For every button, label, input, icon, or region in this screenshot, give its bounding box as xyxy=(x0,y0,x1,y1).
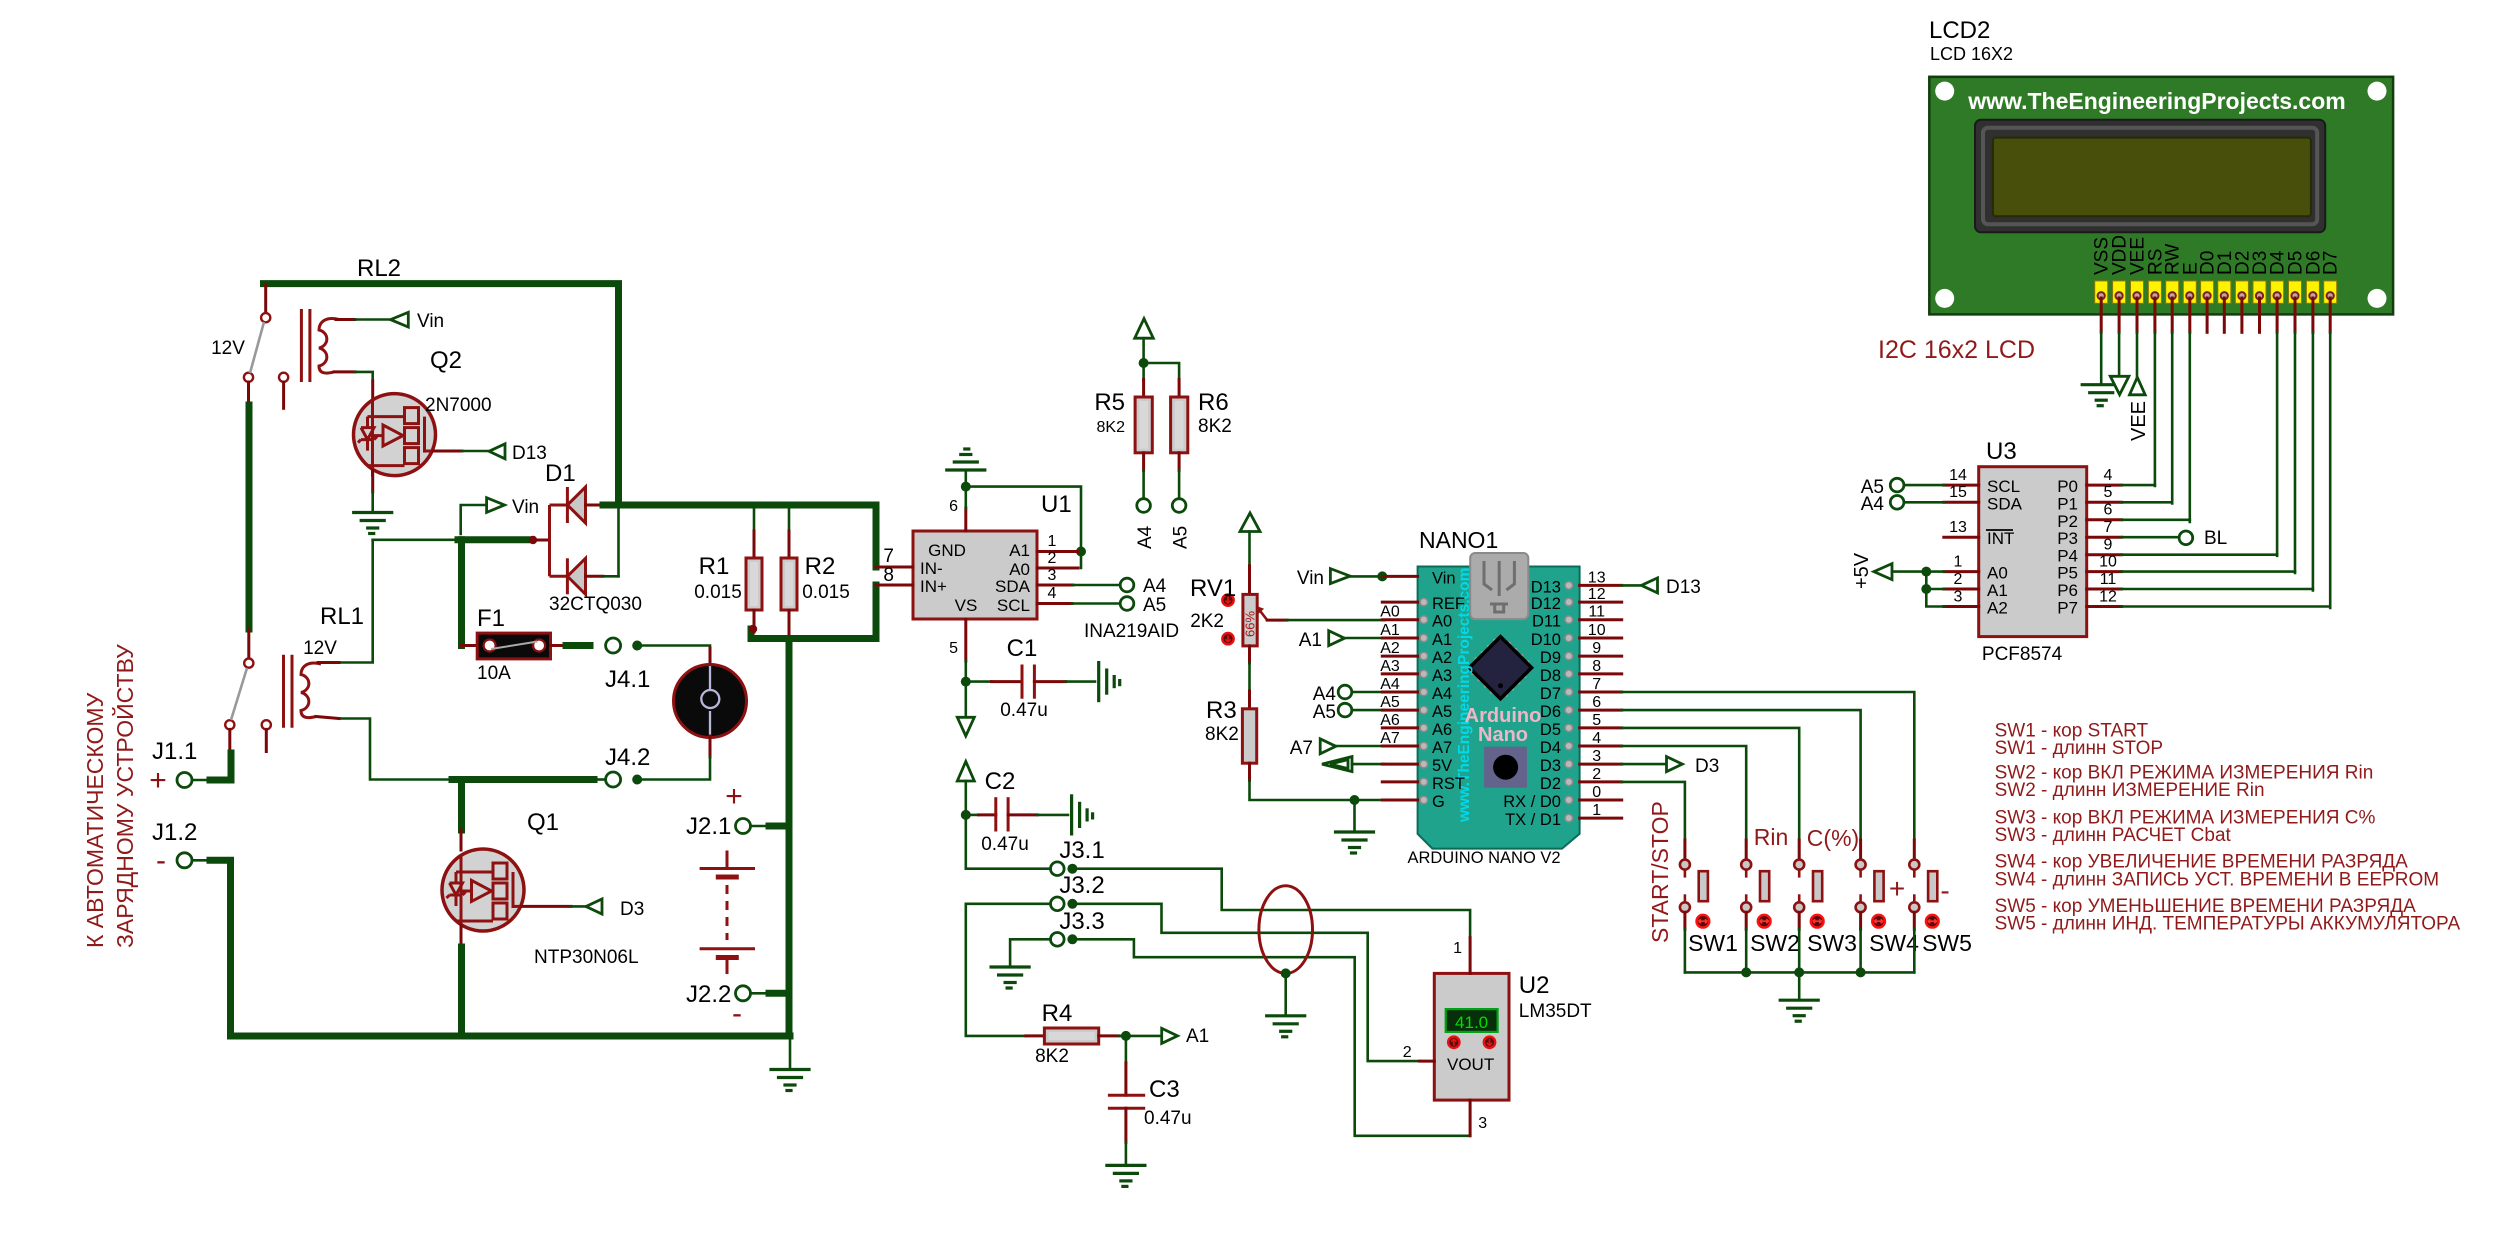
terminal arrow up (C2 net) xyxy=(957,762,974,820)
svg-text:5: 5 xyxy=(1592,712,1601,729)
relay RL2 switch contact circles xyxy=(244,313,288,382)
wire: U3 P0 to LCD RS xyxy=(2122,484,2155,487)
svg-text:A4: A4 xyxy=(1432,685,1452,703)
svg-text:A1: A1 xyxy=(1299,630,1322,651)
svg-text:4: 4 xyxy=(2104,467,2113,484)
svg-text:A1: A1 xyxy=(1380,622,1400,639)
svg-text:RST: RST xyxy=(1432,775,1465,793)
svg-text:0.47u: 0.47u xyxy=(981,834,1029,855)
svg-text:P6: P6 xyxy=(2057,581,2078,600)
svg-text:J3.1: J3.1 xyxy=(1059,837,1104,864)
transistor Q2 gate wire to D13 xyxy=(433,450,489,453)
wire: J3.3 left to ground xyxy=(1010,939,1050,967)
svg-text:+5V: +5V xyxy=(1851,552,1873,589)
svg-text:START/STOP: START/STOP xyxy=(1647,801,1673,943)
resistor R1 xyxy=(746,508,762,633)
lamp xyxy=(674,648,747,757)
wire: U3 P4 to LCD D4 xyxy=(2122,553,2278,556)
wire: U3 P2 to LCD E xyxy=(2122,518,2190,521)
relay RL2 contact rail (thick wire) xyxy=(264,284,619,505)
terminal power arrow up (R5 R6) xyxy=(1135,319,1154,368)
svg-text:D13: D13 xyxy=(512,443,547,464)
svg-text:VS: VS xyxy=(955,596,978,615)
wire: RV1 wiper to Arduino A0 xyxy=(1267,619,1384,622)
svg-text:P0: P0 xyxy=(2057,477,2078,496)
wire: Arduino to SW2 xyxy=(1622,746,1747,840)
svg-text:ARDUINO NANO V2: ARDUINO NANO V2 xyxy=(1407,849,1560,867)
relay RL2 coil bottom to Q2 drain xyxy=(334,372,373,400)
terminal VDD power down-arrow xyxy=(2110,332,2129,394)
relay RL2 NC stub xyxy=(282,382,285,408)
wire: thick drop to Q1 drain xyxy=(458,780,465,831)
ground below switches xyxy=(1780,1000,1818,1021)
svg-text:8K2: 8K2 xyxy=(1035,1046,1069,1067)
U1 pin5 VS xyxy=(949,619,971,687)
svg-text:D12: D12 xyxy=(1531,595,1561,613)
svg-text:A1: A1 xyxy=(1987,581,2008,600)
wire: U3 P6 to LCD D6 xyxy=(2122,588,2313,591)
svg-text:10A: 10A xyxy=(477,663,511,684)
svg-text:4: 4 xyxy=(1048,585,1057,602)
wire: U3 P7 to LCD D7 xyxy=(2122,605,2331,608)
transistor Q2 source pin xyxy=(371,470,374,492)
relay RL2 switch bottom pin xyxy=(247,382,250,405)
ground right of C1 (rotated) xyxy=(1099,663,1120,701)
relay RL1 switch blade xyxy=(231,668,247,720)
svg-text:2: 2 xyxy=(1954,571,1963,588)
svg-text:Nano: Nano xyxy=(1478,724,1528,746)
connector J1.1 xyxy=(177,773,210,788)
svg-text:NTP30N06L: NTP30N06L xyxy=(534,947,639,968)
svg-text:66%: 66% xyxy=(1243,611,1258,637)
svg-text:1: 1 xyxy=(1592,802,1601,819)
ground below C3 xyxy=(1107,1165,1145,1186)
svg-text:A5: A5 xyxy=(1432,703,1452,721)
wire: U3 P3 to BL xyxy=(2122,531,2193,545)
svg-text:4: 4 xyxy=(1592,730,1601,747)
svg-text:SDA: SDA xyxy=(995,577,1031,596)
svg-text:Vin: Vin xyxy=(1432,569,1456,587)
svg-text:0.47u: 0.47u xyxy=(1144,1108,1192,1129)
svg-text:SCL: SCL xyxy=(1987,477,2020,496)
svg-text:12V: 12V xyxy=(303,638,337,659)
fuse F1 xyxy=(462,633,591,659)
connector J4.1 xyxy=(606,638,643,653)
svg-text:P3: P3 xyxy=(2057,529,2078,548)
svg-text:RL2: RL2 xyxy=(357,255,401,282)
svg-text:9: 9 xyxy=(1592,640,1601,657)
wire: J1.2 to ground rail (thick) xyxy=(210,860,790,1036)
relay RL2 coil top pin to Vin tag xyxy=(336,318,391,321)
svg-text:8K2: 8K2 xyxy=(1205,724,1239,745)
svg-text:J2.1: J2.1 xyxy=(686,813,731,840)
svg-text:+: + xyxy=(1889,873,1905,904)
potentiometer RV1 up button xyxy=(1222,594,1233,605)
ground below Q2 xyxy=(354,492,392,534)
svg-text:41.0: 41.0 xyxy=(1455,1013,1488,1032)
terminal Vin (RL2 coil) xyxy=(391,312,409,327)
resistor R3 xyxy=(1242,663,1256,780)
resistor R6 xyxy=(1144,363,1188,499)
svg-text:SW1: SW1 xyxy=(1688,930,1738,956)
wire: thick vertical x789 (shunt bottom to gnd rail) xyxy=(786,639,793,1037)
svg-text:7: 7 xyxy=(1592,676,1601,693)
U1 inside pin names xyxy=(920,541,1031,615)
svg-text:A2: A2 xyxy=(1432,649,1452,667)
wire: J3.2 left to R4 xyxy=(966,904,1051,1036)
svg-text:D8: D8 xyxy=(1540,667,1561,685)
U1 pin3 SDA to A4 xyxy=(1037,567,1167,597)
terminal 5V (Arduino) xyxy=(1322,757,1385,772)
switch SW1 xyxy=(1680,840,1709,972)
svg-text:A2: A2 xyxy=(1987,599,2008,618)
svg-text:0.015: 0.015 xyxy=(694,582,742,603)
svg-text:Vin: Vin xyxy=(417,311,444,332)
svg-text:SW4 - длинн ЗАПИСЬ УСТ. ВРЕМЕН: SW4 - длинн ЗАПИСЬ УСТ. ВРЕМЕНИ В EEPROM xyxy=(1995,870,2440,891)
svg-text:SCL: SCL xyxy=(997,596,1030,615)
svg-text:R6: R6 xyxy=(1198,389,1229,416)
potentiometer RV1 xyxy=(1243,566,1268,663)
svg-text:6: 6 xyxy=(2104,502,2113,519)
svg-text:Q1: Q1 xyxy=(527,809,559,836)
connector J1.2 xyxy=(177,853,210,868)
svg-text:J2.2: J2.2 xyxy=(686,981,731,1008)
U1 pin2 A0 xyxy=(1037,550,1078,568)
wire: Arduino to SW3 xyxy=(1622,728,1800,840)
svg-text:3: 3 xyxy=(1048,567,1057,584)
svg-text:SW3: SW3 xyxy=(1807,930,1857,956)
LCD2 board xyxy=(1929,77,2393,315)
svg-text:J3.3: J3.3 xyxy=(1059,908,1104,935)
svg-text:SDA: SDA xyxy=(1987,494,2023,513)
wire: RL1 coil bottom feed xyxy=(339,719,452,780)
Arduino left pin stubs and circles xyxy=(1382,576,1427,803)
U2 pin3 stub xyxy=(1470,1100,1487,1136)
relay RL1 switch top pin xyxy=(247,629,250,658)
transistor Q1 source to ground rail (thick) xyxy=(460,925,464,1036)
svg-text:REF: REF xyxy=(1432,595,1465,613)
svg-text:5V: 5V xyxy=(1432,757,1452,775)
wire: J3.1 to U2 pin1 xyxy=(1077,869,1470,938)
wire: J1.1 to switch (thick elbow) xyxy=(210,753,231,780)
U3 inside pin names xyxy=(1987,477,2078,617)
Arduino MCU chip (diamond) xyxy=(1469,637,1531,699)
svg-text:A5: A5 xyxy=(1380,694,1400,711)
svg-text:A1: A1 xyxy=(1432,631,1452,649)
svg-text:J4.1: J4.1 xyxy=(605,666,650,693)
svg-text:D7: D7 xyxy=(2321,251,2342,275)
Arduino USB connector xyxy=(1470,553,1528,619)
relay RL2 switch blade xyxy=(250,322,264,373)
svg-text:D13: D13 xyxy=(1531,578,1561,596)
svg-text:0.47u: 0.47u xyxy=(1000,700,1048,721)
svg-text:8: 8 xyxy=(883,565,894,586)
svg-text:SW5: SW5 xyxy=(1922,930,1972,956)
wire: thick stub U1 IN+ to bottom rail xyxy=(873,585,880,639)
LCD2 pin names (rotated) xyxy=(2092,235,2342,275)
U3 left pin numbers xyxy=(1949,467,1967,606)
U3 right pin stubs xyxy=(2087,485,2122,606)
IC U3 PCF8574 body xyxy=(1979,467,2087,637)
svg-text:12V: 12V xyxy=(211,338,245,359)
svg-text:3: 3 xyxy=(1954,589,1963,606)
wire: LCD D4 vertical xyxy=(2276,332,2279,556)
svg-text:LM35DT: LM35DT xyxy=(1519,1001,1592,1022)
svg-text:15: 15 xyxy=(1949,484,1967,501)
svg-text:RX / D0: RX / D0 xyxy=(1503,793,1561,811)
U2 pin2 stub xyxy=(1403,1044,1435,1061)
terminal VEE up-arrow xyxy=(2130,332,2146,395)
svg-text:A1: A1 xyxy=(1009,541,1030,560)
svg-text:D9: D9 xyxy=(1540,649,1561,667)
svg-text:INA219AID: INA219AID xyxy=(1084,621,1179,642)
wire: thick stub rail to U1 IN- xyxy=(873,505,880,567)
Arduino reset button square xyxy=(1484,747,1527,788)
Arduino left pin names xyxy=(1432,569,1465,811)
transistor Q1 drain pin xyxy=(460,830,463,850)
svg-text:8K2: 8K2 xyxy=(1097,419,1126,436)
terminal A1 (R4) xyxy=(1162,1028,1178,1043)
terminal D13 (Q2 gate) xyxy=(489,444,505,459)
terminal A5 circle (U3) xyxy=(1890,478,1944,492)
svg-text:0: 0 xyxy=(1592,784,1601,801)
relay RL2 coil xyxy=(301,309,339,382)
svg-text:TX / D1: TX / D1 xyxy=(1505,811,1561,829)
svg-text:-: - xyxy=(1940,875,1949,906)
svg-text:5: 5 xyxy=(2104,484,2113,501)
ground below shield xyxy=(1267,1016,1305,1037)
svg-text:10: 10 xyxy=(1588,622,1606,639)
svg-text:2: 2 xyxy=(1592,766,1601,783)
svg-text:PCF8574: PCF8574 xyxy=(1982,644,2063,665)
svg-text:P2: P2 xyxy=(2057,512,2078,531)
svg-text:8K2: 8K2 xyxy=(1198,416,1232,437)
relay RL1 NC stub xyxy=(265,729,268,751)
svg-text:R4: R4 xyxy=(1042,1000,1073,1027)
wire: R3 bottom to Arduino G and ground xyxy=(1250,780,1385,831)
svg-text:12: 12 xyxy=(1588,586,1606,603)
wire: thick battery-positive rail to J4.2 xyxy=(452,776,594,783)
transistor Q1 xyxy=(442,849,524,932)
wire: C2 net down to J3.1 xyxy=(966,815,1051,869)
terminal D13 tag wire xyxy=(1622,578,1658,593)
svg-text:A7: A7 xyxy=(1432,739,1452,757)
connector J2.1 xyxy=(736,819,790,834)
U1 pin6 GND stub xyxy=(949,487,966,531)
annotation text SW functions xyxy=(1995,721,2461,935)
svg-text:P5: P5 xyxy=(2057,564,2078,583)
svg-text:A5: A5 xyxy=(1143,595,1166,616)
terminal Vin (Arduino) xyxy=(1330,569,1387,584)
IC U1 INA219AID body xyxy=(913,531,1037,619)
svg-text:A5: A5 xyxy=(1313,702,1336,723)
svg-text:A4: A4 xyxy=(1135,525,1156,549)
svg-text:GND: GND xyxy=(928,541,966,560)
svg-text:SW2: SW2 xyxy=(1750,930,1800,956)
ground right of C2 (rotated) xyxy=(1072,796,1093,834)
svg-text:14: 14 xyxy=(1949,467,1967,484)
svg-text:C2: C2 xyxy=(985,768,1016,795)
svg-text:13: 13 xyxy=(1588,569,1606,586)
svg-text:U1: U1 xyxy=(1041,491,1072,518)
svg-text:VOUT: VOUT xyxy=(1447,1055,1494,1074)
battery symbol xyxy=(700,851,755,975)
terminal +5V arrow (U3) xyxy=(1874,564,1944,607)
svg-text:SW5 - длинн ИНД. ТЕМПЕРАТУРЫ А: SW5 - длинн ИНД. ТЕМПЕРАТУРЫ АККУМУЛЯТОР… xyxy=(1995,914,2461,935)
svg-text:P1: P1 xyxy=(2057,494,2078,513)
U2 pin1 stub xyxy=(1453,938,1470,974)
wire: thick drop to fuse F1 xyxy=(458,540,465,646)
svg-text:2: 2 xyxy=(1048,550,1057,567)
wire: LCD E vertical xyxy=(2189,332,2192,522)
svg-text:8: 8 xyxy=(1592,658,1601,675)
svg-text:R3: R3 xyxy=(1206,697,1237,724)
svg-text:R5: R5 xyxy=(1094,389,1125,416)
relay RL1 coil xyxy=(284,655,340,728)
svg-text:ЗАРЯДНОМУ УСТРОЙСТВУ: ЗАРЯДНОМУ УСТРОЙСТВУ xyxy=(111,644,138,948)
svg-text:D10: D10 xyxy=(1531,631,1561,649)
ground at bottom rail xyxy=(771,1036,809,1091)
switch SW2 xyxy=(1741,840,1770,972)
terminal D3 tag wire xyxy=(1622,757,1683,772)
switch SW3 xyxy=(1794,840,1823,972)
svg-text:C(%): C(%) xyxy=(1807,825,1859,851)
wire: U3 P1 to LCD RW xyxy=(2122,501,2173,504)
svg-text:www.TheEngineeringProjects.com: www.TheEngineeringProjects.com xyxy=(1967,88,2345,114)
svg-text:INT: INT xyxy=(1987,529,2014,548)
svg-text:A1: A1 xyxy=(1186,1026,1209,1047)
Arduino Nano pink label xyxy=(1465,705,1542,746)
svg-text:1: 1 xyxy=(1954,554,1963,571)
wire: Arduino to SW4 xyxy=(1622,710,1861,840)
svg-text:-: - xyxy=(732,997,742,1030)
svg-text:VEE: VEE xyxy=(2128,401,2150,441)
LCD2 display bezel xyxy=(1975,120,2325,233)
svg-text:+: + xyxy=(725,780,743,813)
svg-text:A7: A7 xyxy=(1380,730,1400,747)
Arduino outer A0-A7 labels xyxy=(1380,604,1400,747)
svg-text:A4: A4 xyxy=(1380,676,1400,693)
connector J3.3 xyxy=(1051,933,1078,947)
capacitor C2 xyxy=(966,797,1068,831)
wire: J3.3 to U2 pin3 xyxy=(1077,939,1470,1136)
svg-text:Vin: Vin xyxy=(512,497,539,518)
wire: Vin net to RL1 coil (thin) xyxy=(339,540,373,663)
switch SW5 xyxy=(1909,840,1938,972)
wire: Vin junction horizontal (thin then thick) xyxy=(373,538,531,541)
svg-text:A0: A0 xyxy=(1432,613,1452,631)
svg-text:Q2: Q2 xyxy=(430,347,462,374)
Arduino right pin numbers xyxy=(1588,569,1606,819)
svg-text:7: 7 xyxy=(883,546,894,567)
connector J4.2 xyxy=(594,772,642,787)
terminal D3 (Q1 gate) xyxy=(586,899,602,914)
svg-text:12: 12 xyxy=(2099,589,2117,606)
shielded cable symbol xyxy=(1259,886,1313,1016)
svg-text:RV1: RV1 xyxy=(1190,575,1236,602)
U1 pin8 IN+ xyxy=(876,584,913,587)
capacitor C3 xyxy=(1108,1036,1145,1165)
potentiometer RV1 down button xyxy=(1222,633,1233,644)
svg-text:A4: A4 xyxy=(1143,576,1167,597)
relay RL2 switch pole pin xyxy=(264,285,267,312)
svg-text:D5: D5 xyxy=(1540,721,1561,739)
svg-text:J1.1: J1.1 xyxy=(152,738,197,765)
svg-text:9: 9 xyxy=(2104,537,2113,554)
wire: Arduino to SW1 xyxy=(1622,782,1685,840)
terminal A4 circle (U3) xyxy=(1890,496,1944,510)
svg-text:32CTQ030: 32CTQ030 xyxy=(549,594,642,615)
U1 pin4 SCL to A5 xyxy=(1037,585,1166,616)
wire: main thick rail from D1 to shunts xyxy=(603,502,876,509)
svg-text:3: 3 xyxy=(1478,1115,1487,1132)
svg-text:SW1 - длинн STOP: SW1 - длинн STOP xyxy=(1995,738,2164,759)
terminal A5 circle (Arduino) xyxy=(1338,703,1384,717)
svg-text:LCD2: LCD2 xyxy=(1929,17,1990,44)
svg-text:К АВТОМАТИЧЕСКОМУ: К АВТОМАТИЧЕСКОМУ xyxy=(82,692,108,948)
svg-text:LCD 16X2: LCD 16X2 xyxy=(1930,44,2013,64)
Arduino NANO1 body xyxy=(1418,567,1580,849)
svg-text:A0: A0 xyxy=(1987,564,2008,583)
svg-text:J4.2: J4.2 xyxy=(605,744,650,771)
svg-text:1: 1 xyxy=(1048,533,1057,550)
svg-text:6: 6 xyxy=(1592,694,1601,711)
wire: R1R2 bottom rail to J2.1 and battery minus (thick) xyxy=(751,629,876,639)
wire: lamp to J4.2 xyxy=(642,757,710,780)
connector J3.1 xyxy=(1051,862,1078,876)
svg-text:D3: D3 xyxy=(620,899,644,920)
resistor R4 xyxy=(1026,1028,1162,1044)
svg-text:A4: A4 xyxy=(1861,494,1885,515)
resistor R2 xyxy=(781,508,797,634)
potentiometer RV1 +5V arrow xyxy=(1240,513,1260,566)
svg-text:IN+: IN+ xyxy=(920,577,947,596)
svg-text:Vin: Vin xyxy=(1297,568,1324,589)
wire: LCD RW vertical xyxy=(2171,332,2174,503)
svg-text:D7: D7 xyxy=(1540,685,1561,703)
relay RL1 switch contact circles xyxy=(225,659,271,730)
svg-text:C1: C1 xyxy=(1007,635,1038,662)
svg-text:D2: D2 xyxy=(1540,775,1561,793)
svg-text:A3: A3 xyxy=(1432,667,1452,685)
svg-text:U3: U3 xyxy=(1986,438,2017,465)
svg-text:SW3 - длинн РАСЧЕТ Cbat: SW3 - длинн РАСЧЕТ Cbat xyxy=(1995,825,2232,846)
terminal A4 circle (Arduino) xyxy=(1338,685,1384,699)
connector J2.2 xyxy=(736,986,790,1001)
wire: LCD D7 vertical xyxy=(2329,332,2332,608)
sensor U2 LM35DT body xyxy=(1434,973,1509,1100)
svg-text:D4: D4 xyxy=(1540,739,1561,757)
ground below J3.3 xyxy=(991,967,1029,988)
relay RL1 switch bottom pin xyxy=(228,729,231,753)
U1 pin numbers 7 8 xyxy=(883,546,894,586)
wire: LCD VSS to ground xyxy=(2100,332,2103,384)
ground above U1 (inverted) xyxy=(947,449,985,487)
U3 INT overline xyxy=(1986,529,2013,531)
LCD2 pin pads xyxy=(2095,281,2337,303)
svg-text:11: 11 xyxy=(1588,604,1605,621)
svg-text:G: G xyxy=(1432,793,1445,811)
U1 pin7 IN- xyxy=(876,566,913,569)
svg-text:IN-: IN- xyxy=(920,559,943,578)
ground below VSS xyxy=(2082,385,2120,406)
svg-text:D1: D1 xyxy=(545,460,576,487)
svg-text:A6: A6 xyxy=(1432,721,1452,739)
svg-text:-: - xyxy=(156,844,166,877)
svg-text:D3: D3 xyxy=(1695,756,1719,777)
svg-text:5: 5 xyxy=(949,640,958,657)
svg-text:3: 3 xyxy=(1592,748,1601,765)
